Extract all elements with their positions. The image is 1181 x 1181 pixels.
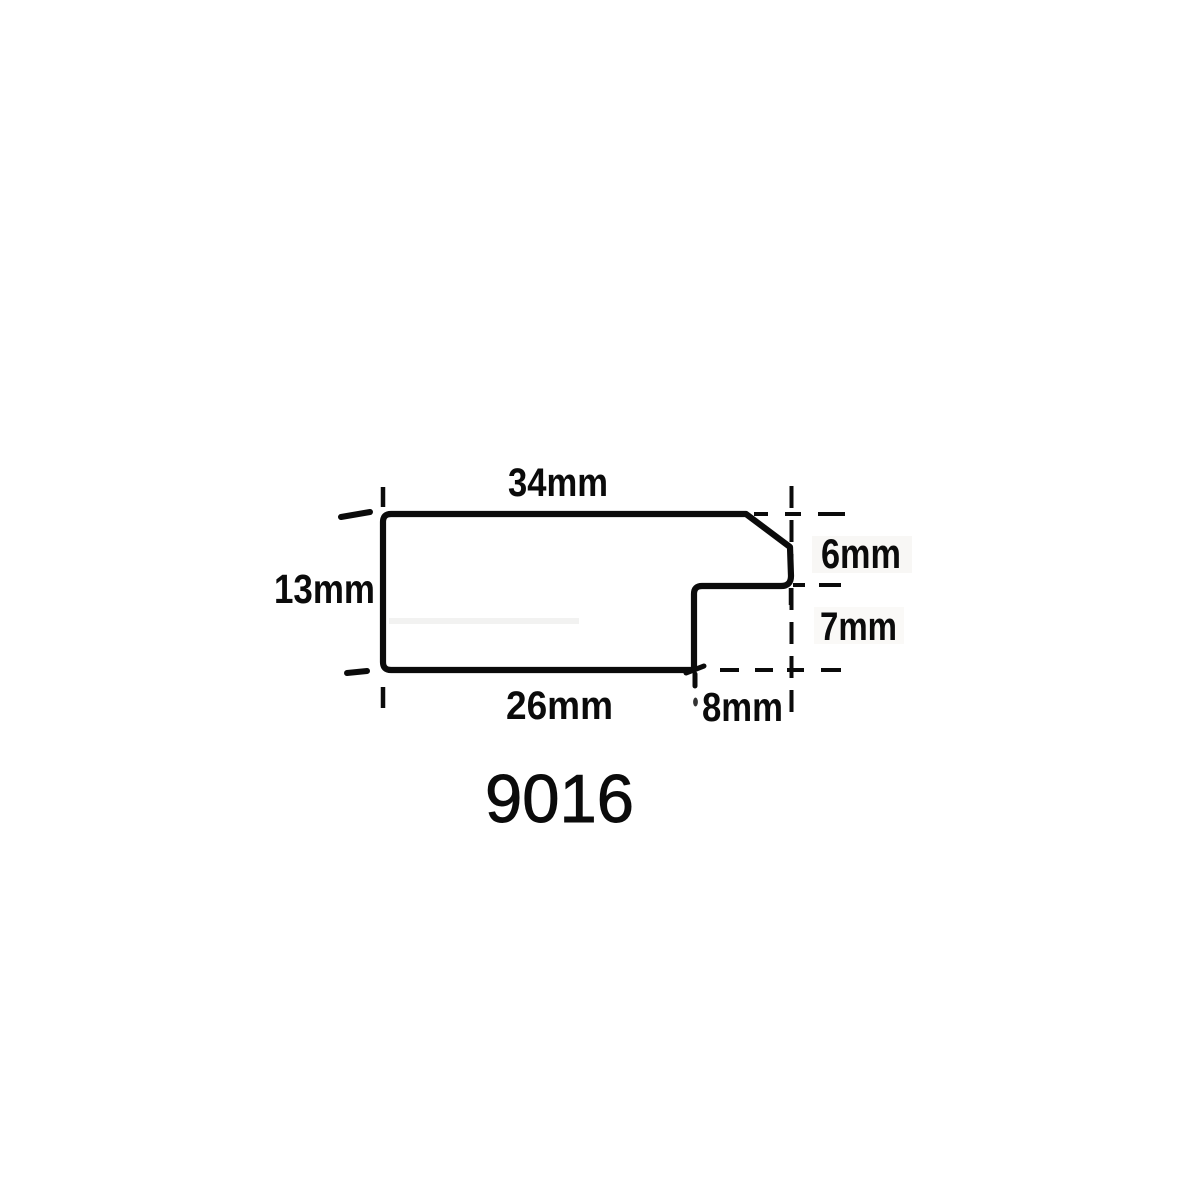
svg-text:26mm: 26mm (506, 684, 613, 728)
svg-text:34mm: 34mm (508, 461, 608, 505)
svg-text:6mm: 6mm (821, 530, 901, 577)
svg-text:8mm: 8mm (702, 684, 783, 730)
svg-text:13mm: 13mm (274, 566, 375, 612)
svg-text:7mm: 7mm (820, 605, 897, 649)
svg-text:9016: 9016 (485, 761, 634, 837)
